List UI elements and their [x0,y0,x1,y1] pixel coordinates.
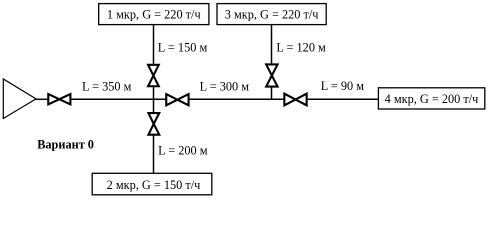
svg-text:L = 120 м: L = 120 м [276,41,326,55]
source triangle (heat source) [3,79,36,119]
svg-text:L = 350 м: L = 350 м [82,80,132,94]
valve V2 (horizontal, after node A) [166,94,188,105]
svg-text:L = 200 м: L = 200 м [158,143,208,157]
wire: valve V6 down to main line at node B [271,87,273,100]
wire: valve V5 down to box 2 мкр [153,136,155,174]
svg-text:L = 300 м: L = 300 м [200,80,250,94]
wire: L = 300 m segment (valve V2 to node B) [190,98,285,100]
box 2 мкр (consumer 2) [92,173,212,195]
valve V5 (vertical, branch to 2 мкр) [148,113,159,135]
box 4 мкр (consumer 4) [378,88,484,109]
svg-text:4 мкр, G = 200 т/ч: 4 мкр, G = 200 т/ч [385,92,479,106]
svg-text:L = 150 м: L = 150 м [158,41,208,55]
svg-text:Вариант 0: Вариант 0 [37,138,94,152]
svg-text:L = 90 м: L = 90 м [321,79,365,93]
svg-text:2 мкр, G = 150 т/ч: 2 мкр, G = 150 т/ч [107,178,201,192]
svg-text:1 мкр, G = 220 т/ч: 1 мкр, G = 220 т/ч [107,8,201,22]
wire: valve V4 to main line and down to valve V5 [153,87,155,112]
wire: triangle apex to valve V1 [36,98,49,100]
valve V6 (vertical, branch to 3 мкр) [266,64,277,86]
box 1 мкр (consumer 1) [99,4,209,25]
valve V1 (horizontal, at source) [48,94,70,104]
valve V3 (horizontal, after node B) [284,94,306,106]
wire: L = 350 m segment (valve V1 to node A) [71,98,166,100]
svg-text:3 мкр, G = 220 т/ч: 3 мкр, G = 220 т/ч [225,8,319,22]
box 3 мкр (consumer 3) [217,4,326,25]
valve V4 (vertical, branch to 1 мкр) [148,65,159,86]
wire: L = 90 m segment (valve V3 to box 4 мкр) [308,98,379,100]
node B vertical wire up (node B to valve V6) [271,24,273,64]
node A vertical wire up (node A to valve V4) [153,24,155,65]
